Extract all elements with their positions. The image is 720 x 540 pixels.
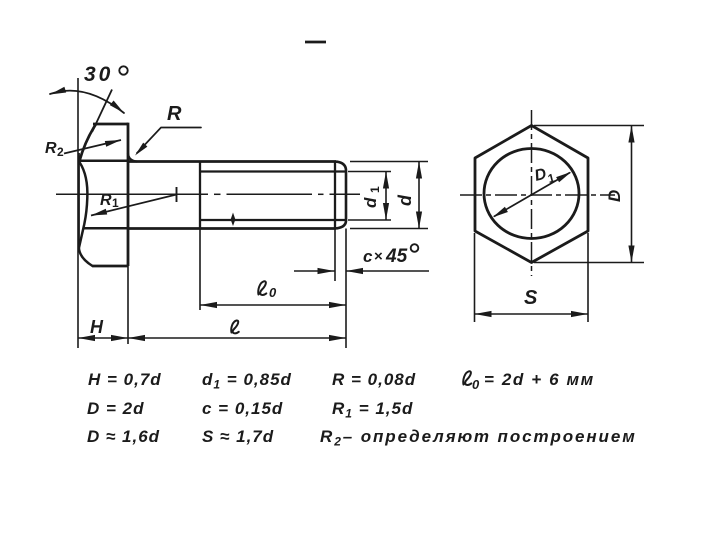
node: R leader and label: [137, 128, 201, 154]
svg-text:0: 0: [269, 285, 277, 300]
node: head upper chamfer edge on 30deg line: [79, 125, 95, 162]
svg-text:D: D: [605, 190, 624, 202]
node: bolt end face with chamfer corners: [336, 162, 347, 229]
node: head left face line: [78, 153, 80, 250]
node: dimension l: [128, 337, 346, 339]
node: thread top line: [200, 170, 345, 172]
node: bolt head top edge: [93, 123, 128, 126]
node: head lower hex edge divider: [84, 227, 129, 230]
node: horizontal centerline: [460, 194, 615, 196]
node: shank top outline: [128, 160, 336, 163]
node: R1 center tick on axis: [176, 187, 178, 202]
svg-text:R: R: [167, 103, 182, 125]
wire: chamfer extension down to c dim: [334, 229, 336, 282]
svg-text:2: 2: [57, 145, 64, 159]
node: dimension l0: [200, 304, 346, 306]
node: page mark dash: [305, 41, 326, 44]
svg-text:D = 2d: D = 2d: [87, 399, 145, 418]
node: 30 deg dimension arc: [50, 91, 124, 113]
node: chamfer start line at bolt end: [334, 162, 336, 229]
svg-text:45: 45: [385, 246, 408, 267]
svg-text:R1 = 1,5d: R1 = 1,5d: [332, 399, 413, 421]
svg-text:R: R: [45, 140, 57, 157]
wire: D extension lines: [534, 125, 644, 127]
node: thread start line: [199, 162, 201, 229]
node: R2 leader and label: [64, 140, 121, 154]
node: shank bottom outline: [128, 227, 336, 230]
svg-text:R: R: [100, 192, 112, 209]
svg-text:D ≈ 1,6d: D ≈ 1,6d: [87, 427, 160, 446]
wire: 30 deg chamfer construction line: [92, 90, 112, 132]
svg-text:S ≈ 1,7d: S ≈ 1,7d: [202, 427, 274, 446]
svg-text:1: 1: [546, 171, 556, 186]
svg-text:H: H: [90, 317, 104, 337]
svg-text:30: 30: [84, 63, 113, 86]
node: dimension d1: [385, 172, 387, 221]
svg-text:c: c: [363, 247, 373, 266]
svg-text:1: 1: [112, 196, 119, 210]
node: thread bottom line: [200, 219, 345, 221]
svg-text:c = 0,15d: c = 0,15d: [202, 399, 283, 418]
svg-text:d: d: [395, 194, 415, 206]
node: hexagon head outline: [475, 126, 588, 263]
node: head upper hex edge divider: [79, 160, 128, 163]
wire: thread line extensions right: [348, 171, 391, 173]
wire: S extension lines: [474, 233, 476, 322]
wire: left extension line of head face: [77, 78, 79, 348]
svg-text:d: d: [361, 197, 380, 208]
wire: shank line extensions right: [350, 161, 428, 163]
svg-text:= 2d + 6 мм: = 2d + 6 мм: [484, 370, 595, 389]
node: dimension c x45: [294, 270, 335, 272]
svg-text:R2– определяют построением: R2– определяют построением: [320, 427, 637, 449]
svg-text:0: 0: [472, 377, 480, 392]
node: axis centerline of bolt: [56, 193, 208, 195]
node: formula l0=2d+6mm: [463, 371, 471, 385]
svg-text:1: 1: [368, 186, 382, 193]
node: vertical centerline: [531, 110, 533, 276]
wire: end face extension down to l dim: [345, 229, 347, 349]
node: bolt head bottom edge: [93, 265, 129, 268]
wire: extension below head right edge: [127, 266, 129, 344]
svg-text:S: S: [524, 287, 538, 309]
node: dimension S: [475, 313, 589, 315]
svg-text:×: ×: [374, 248, 383, 265]
node: head middle face arc R1: [79, 163, 87, 249]
node: D1 diameter arrow: [494, 173, 570, 217]
svg-text:d1 = 0,85d: d1 = 0,85d: [202, 370, 292, 392]
node: thread runout tick: [231, 213, 236, 227]
node: dimension d: [418, 162, 420, 229]
wire: thread-start extension down to l0 dim: [199, 229, 201, 311]
node: head lower chamfer edge: [79, 248, 93, 266]
node: bolt head right edge: [127, 123, 130, 266]
node: dimension H: [78, 337, 128, 339]
node: chamfer circle on head: [484, 149, 579, 239]
svg-text:H = 0,7d: H = 0,7d: [88, 370, 162, 389]
svg-text:R = 0,08d: R = 0,08d: [332, 370, 416, 389]
node: dimension D: [631, 126, 633, 263]
node: R1 leader and label: [91, 195, 177, 216]
node: fillet R under head: [128, 154, 137, 162]
